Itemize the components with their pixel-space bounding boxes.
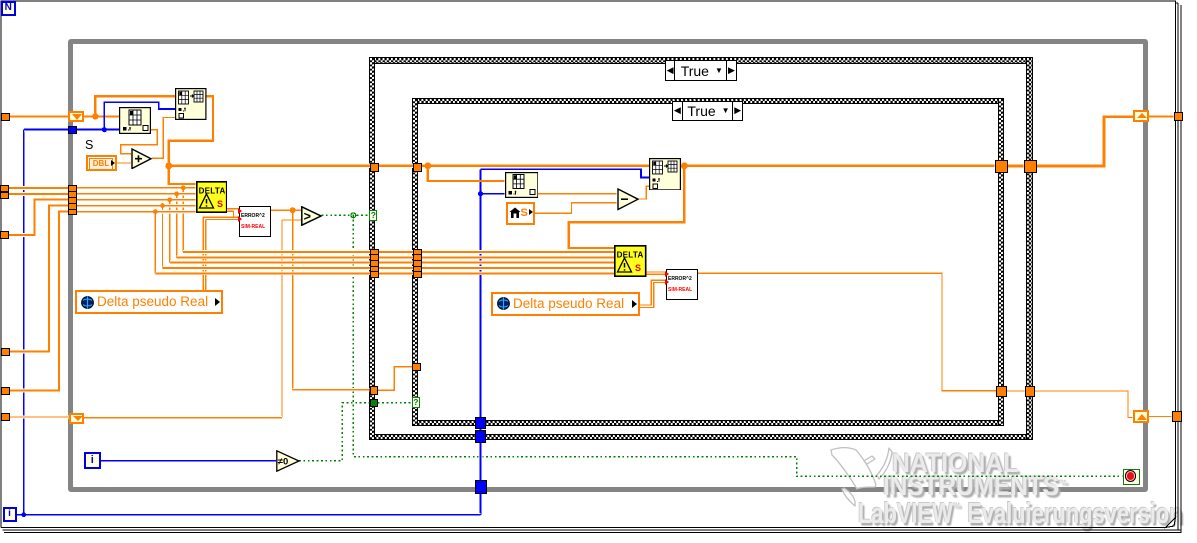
svg-text:>: > [304,209,311,223]
svg-text:DELTA: DELTA [617,250,644,259]
svg-text:S: S [217,199,223,209]
svg-text:≠0: ≠0 [278,457,289,468]
svg-text:S: S [635,263,641,273]
svg-text:DELTA: DELTA [198,187,225,196]
